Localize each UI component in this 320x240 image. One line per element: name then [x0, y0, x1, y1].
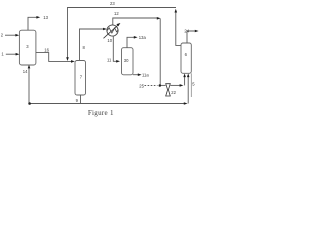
arrowhead stream 13a: [134, 36, 138, 39]
svg-text:3: 3: [26, 44, 29, 49]
arrowhead stream 11a: [138, 73, 142, 76]
wire stream 1 line: [6, 53, 16, 55]
wire valve 22 inlet: [160, 84, 166, 86]
svg-text:6: 6: [185, 52, 188, 57]
wire stream 11 (exchanger 10 to drum 30): [113, 36, 117, 61]
valve 22 symbol: [166, 84, 171, 96]
wire stream 23 right leg from absorber 6: [176, 12, 181, 46]
wire stream 2 line: [5, 34, 16, 36]
junction dot stream 25 / 12: [159, 84, 162, 87]
heat exchanger 10 circle: [107, 25, 118, 36]
arrowhead stream 16 into column 7: [71, 60, 75, 63]
arrowhead stream 11 into drum 30: [116, 60, 120, 63]
svg-text:13a: 13a: [139, 35, 147, 40]
wire stream 8 (column 7 top to exchanger 10): [80, 29, 105, 61]
wire stream 16 (vessel 3 side draw to column 7): [36, 53, 72, 62]
arrowhead stream 24: [195, 30, 199, 33]
arrowhead stream 1 into vessel 3: [16, 53, 20, 56]
arrowhead stream 12 at corner: [157, 17, 161, 20]
heat exchanger 10 diagonal arrow: [104, 25, 119, 39]
svg-text:23: 23: [110, 1, 115, 6]
wire stream 9 (column 7 bottoms): [80, 95, 82, 104]
svg-text:9: 9: [76, 98, 79, 103]
wire stream 23 top line: [68, 8, 177, 59]
svg-text:1: 1: [1, 51, 4, 56]
svg-text:11a: 11a: [142, 72, 149, 77]
wire stream 13a (drum 30 overhead): [127, 37, 135, 47]
svg-text:5: 5: [192, 82, 195, 87]
arrowhead stream 2 into vessel 3: [15, 34, 19, 37]
wire stream 11a (drum 30 bottoms): [133, 74, 139, 76]
wire stream 5 stub (absorber 6 bottoms): [190, 73, 192, 97]
arrowhead stream 23 up into top line: [175, 9, 178, 13]
svg-text:25: 25: [139, 83, 144, 88]
wire valve 22 outlet to absorber 6: [170, 84, 180, 86]
column 7: [75, 61, 86, 96]
wire stream 25 dashed: [145, 85, 158, 87]
svg-text:12: 12: [114, 11, 119, 16]
heat exchanger 10 zigzag: [107, 28, 118, 33]
arrowhead bottom header before corner: [184, 102, 188, 105]
wire stream 13 (top of vessel 3): [28, 17, 37, 30]
junction dot bottom-left corner: [28, 102, 31, 105]
svg-text:22: 22: [171, 90, 176, 95]
svg-text:14: 14: [23, 69, 28, 74]
arrowhead stream 8 into exchanger 10: [103, 28, 107, 31]
svg-text:30: 30: [124, 58, 129, 63]
vessel 3: [19, 30, 36, 65]
svg-text:2: 2: [1, 33, 4, 38]
svg-text:16: 16: [44, 48, 49, 53]
arrowhead stream 23 down at junction: [66, 57, 69, 61]
wire bottom header line: [29, 103, 186, 105]
drum 30: [122, 48, 134, 75]
arrowhead up into absorber 6 (valve branch): [183, 74, 186, 78]
wire stream 12 (exchanger 10 to valve 22): [113, 18, 158, 25]
wire stream 24 (absorber 6 overhead): [187, 31, 196, 43]
wire stream 14 riser (into vessel 3 bottom): [28, 67, 30, 103]
absorber 6: [181, 43, 191, 73]
wire riser from bottom header to absorber 6: [187, 75, 189, 104]
svg-text:13: 13: [43, 15, 48, 20]
svg-text:Figure 1: Figure 1: [88, 109, 114, 117]
arrowhead up into absorber 6 (header branch): [187, 74, 190, 78]
svg-text:8: 8: [83, 45, 86, 50]
svg-text:7: 7: [80, 74, 83, 79]
svg-text:24: 24: [184, 28, 189, 33]
arrowhead stream 14 up into vessel 3: [28, 65, 31, 69]
arrowhead exchanger diagonal: [116, 23, 120, 26]
arrowhead valve 22 outlet: [180, 84, 184, 87]
svg-text:11: 11: [107, 57, 112, 62]
arrowhead stream 13: [36, 16, 40, 19]
svg-text:10: 10: [107, 38, 112, 43]
